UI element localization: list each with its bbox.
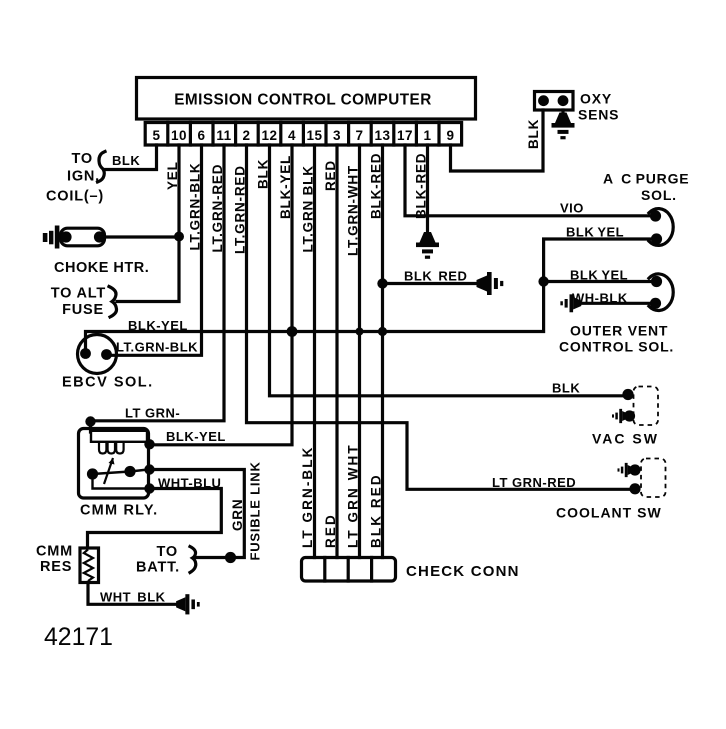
wire WH-BLK to outer vent sol [581, 302, 650, 305]
connector J2: CHECK CONN [302, 558, 396, 582]
wire pin2 LT GRN-RED to COOLANT SW [247, 145, 630, 489]
bracket for TO BATT [190, 547, 196, 573]
svg-text:15: 15 [306, 128, 322, 143]
resistor R1: CMM RES [80, 548, 99, 583]
switch S2: COOLANT SW [629, 459, 665, 498]
node TO BATT. [136, 544, 180, 576]
svg-text:10: 10 [171, 128, 187, 143]
label OXY SENS [578, 91, 619, 123]
svg-text:BLK-RED: BLK-RED [413, 153, 428, 219]
svg-text:LT.GRN BLK: LT.GRN BLK [300, 165, 315, 252]
svg-text:WH-BLK: WH-BLK [572, 291, 628, 306]
svg-text:LT GRN-: LT GRN- [125, 406, 180, 421]
svg-text:BLK: BLK [552, 381, 580, 396]
wire pin1 BLK-RED to ground [426, 145, 429, 232]
junction choke htr on YEL wire [174, 232, 184, 242]
wire pin13 BLK-RED to check conn [381, 145, 384, 558]
svg-text:EBCV SOL.: EBCV SOL. [62, 375, 154, 391]
svg-text:7: 7 [355, 128, 363, 143]
bracket for TO ALT FUSE [109, 287, 117, 318]
svg-text:LT.GRN-BLK: LT.GRN-BLK [187, 163, 202, 251]
junction pin4 with BLK-YEL bus [287, 326, 298, 337]
svg-text:LT.GRN-RED: LT.GRN-RED [210, 164, 225, 253]
BLK-YEL bus: EBCV to solenoids [86, 239, 651, 347]
solenoid L3: OUTER VENT CONTROL SOL body [649, 274, 673, 311]
wire oxy sens right pin to ground [561, 110, 564, 114]
terminal bullet WH-BLK [650, 298, 661, 309]
svg-text:TO: TO [157, 544, 178, 560]
svg-text:COIL(–): COIL(–) [46, 189, 104, 205]
svg-text:1: 1 [423, 128, 431, 143]
terminal bullet VIO [650, 210, 661, 221]
svg-text:IGN.: IGN. [67, 169, 100, 185]
terminal bullet BLK YEL [651, 233, 662, 244]
svg-text:WHT BLK: WHT BLK [100, 590, 166, 605]
svg-text:13: 13 [374, 128, 390, 143]
svg-text:LT GRN-RED: LT GRN-RED [492, 475, 576, 490]
switch S1: VAC SW [622, 387, 658, 426]
junction pin13 BLK RED ground branch [377, 278, 387, 288]
ground G2 (pin 1) [416, 232, 439, 259]
computer U1: EMISSION CONTROL COMPUTER box [137, 78, 476, 120]
junction TO BATT wire [225, 552, 236, 563]
svg-text:3: 3 [333, 128, 341, 143]
svg-text:BLK RED: BLK RED [368, 473, 383, 548]
solenoid L2: A C PURGE SOL body [649, 209, 673, 246]
heater R-CH: CHOKE HTR component [43, 226, 105, 249]
junction pin7 with BLK-YEL bus [356, 328, 364, 336]
junction BLK YEL branch [538, 276, 548, 286]
junction pin13 with BLK-YEL bus [378, 327, 387, 336]
ground G3 (oxy sens) [552, 113, 575, 140]
svg-text:LT GRN-BLK: LT GRN-BLK [300, 446, 315, 548]
label CMM RES [36, 544, 73, 576]
svg-text:FUSE: FUSE [62, 302, 104, 318]
wire CMM RES WHT BLK to ground [88, 583, 176, 605]
svg-text:WHT-BLU: WHT-BLU [158, 476, 221, 491]
svg-text:EMISSION CONTROL COMPUTER: EMISSION CONTROL COMPUTER [174, 92, 431, 109]
svg-text:LT.GRN-BLK: LT.GRN-BLK [116, 340, 198, 355]
svg-text:OXY: OXY [580, 91, 612, 107]
svg-text:CMM RLY.: CMM RLY. [80, 503, 158, 519]
svg-text:LT.GRN-WHT: LT.GRN-WHT [345, 165, 360, 256]
svg-text:GRN: GRN [230, 499, 245, 531]
ground G7 (wht blk) [176, 594, 200, 614]
wire pin7 LT GRN-WHT to check conn [358, 145, 361, 558]
svg-text:BLK-YEL: BLK-YEL [278, 155, 293, 219]
wire choke htr to YEL junction [100, 235, 180, 238]
wire pin17 VIO to A C PURGE SOL [405, 145, 650, 216]
wire pin10 YEL down to TO ALT FUSE [117, 145, 179, 302]
svg-text:BATT.: BATT. [136, 560, 180, 576]
bracket for TO IGN. COIL(-) [98, 152, 106, 183]
svg-text:11: 11 [216, 128, 231, 143]
wire pin15 LT GRN BLK to check conn [313, 145, 316, 558]
svg-text:12: 12 [261, 128, 277, 143]
connector pin row of U1 [145, 123, 461, 146]
wire BLK YEL branch to outer vent sol [544, 280, 651, 283]
svg-text:YEL: YEL [165, 161, 180, 190]
sensor B1: OXY SENS connector [535, 92, 574, 111]
svg-text:VAC SW: VAC SW [592, 431, 659, 447]
svg-text:42171: 42171 [44, 624, 113, 651]
wire pin12 BLK to VAC SW [270, 145, 624, 396]
label OUTER VENT CONTROL SOL. [559, 323, 674, 355]
svg-text:RES: RES [40, 559, 72, 575]
svg-text:RED: RED [323, 513, 338, 548]
svg-text:5: 5 [152, 128, 160, 143]
wire pin5 BLK to ignition coil [104, 145, 157, 170]
svg-text:TO ALT: TO ALT [51, 286, 106, 302]
svg-text:BLK-YEL: BLK-YEL [128, 318, 188, 333]
svg-text:COOLANT SW: COOLANT SW [556, 505, 662, 521]
svg-text:CHOKE HTR.: CHOKE HTR. [54, 260, 149, 276]
node TO IGN. COIL(-) [46, 151, 104, 205]
svg-text:BLK-RED: BLK-RED [368, 153, 383, 219]
wire BLK RED branch to ground [383, 282, 478, 285]
svg-text:CONTROL SOL.: CONTROL SOL. [559, 339, 674, 355]
svg-text:CMM: CMM [36, 544, 73, 560]
ground G6 (coolant sw) [618, 463, 635, 477]
svg-text:BLK: BLK [112, 153, 140, 168]
solenoid L1: EBCV SOL [78, 335, 117, 374]
node TO ALT FUSE [51, 286, 106, 319]
svg-text:FUSIBLE LINK: FUSIBLE LINK [247, 461, 262, 560]
svg-text:VIO: VIO [560, 201, 584, 216]
ground G5 (vac sw) [612, 409, 629, 423]
ground G4 (wh-blk) [560, 294, 581, 312]
svg-text:A C PURGE: A C PURGE [603, 171, 689, 187]
label A C PURGE SOL. [603, 171, 689, 204]
svg-text:RED: RED [323, 160, 338, 191]
svg-text:CHECK CONN: CHECK CONN [406, 563, 520, 580]
wire pin9 BLK to OXY SENS [451, 110, 544, 171]
svg-text:BLK YEL: BLK YEL [566, 225, 624, 240]
wire pin4 BLK-YEL down to CMM RLY coil [150, 145, 292, 445]
svg-text:LT GRN WHT: LT GRN WHT [345, 443, 360, 548]
svg-text:4: 4 [288, 128, 296, 143]
svg-text:OUTER VENT: OUTER VENT [570, 323, 668, 339]
svg-text:BLK: BLK [526, 119, 541, 149]
svg-text:BLK YEL: BLK YEL [570, 268, 628, 283]
svg-text:17: 17 [397, 128, 413, 143]
svg-text:TO: TO [72, 151, 93, 167]
svg-text:6: 6 [197, 128, 205, 143]
svg-text:BLK: BLK [255, 159, 270, 189]
svg-text:2: 2 [242, 128, 250, 143]
svg-text:SENS: SENS [578, 107, 619, 123]
wire relay WHT-BLU to CMM RES [88, 489, 222, 549]
svg-text:SOL.: SOL. [641, 187, 677, 203]
wire pin6 LT GRN-BLK to EBCV SOL [107, 145, 202, 355]
svg-text:LT.GRN-RED: LT.GRN-RED [232, 165, 247, 254]
svg-text:BLK-YEL: BLK-YEL [166, 429, 226, 444]
svg-text:9: 9 [446, 128, 454, 143]
ground G1 (BLK RED branch) [477, 272, 504, 295]
wire pin3 RED to check conn [335, 145, 338, 558]
wire pin11 LT GRN-RED to CMM RLY [91, 145, 225, 432]
terminal bullet BLK YEL 2 [651, 276, 662, 287]
junction at CMM RLY coil feed [85, 416, 95, 426]
relay K1: CMM RLY [79, 429, 155, 499]
svg-text:BLK RED: BLK RED [404, 269, 467, 284]
wire relay switch to fusible link to TO BATT [150, 470, 245, 558]
